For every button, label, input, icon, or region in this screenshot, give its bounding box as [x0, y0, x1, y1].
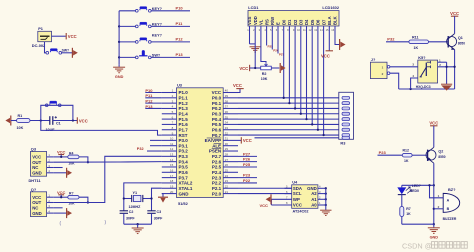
wire P0.6 bus row: [238, 129, 342, 131]
svg-text:38: 38: [225, 99, 229, 103]
svg-text:34: 34: [225, 121, 229, 125]
wire LCD pin 6 net P27: [278, 34, 285, 57]
svg-text:EA/VPP: EA/VPP: [205, 138, 222, 143]
svg-text:P1.7: P1.7: [179, 127, 189, 132]
wire net P23 at U3: [238, 173, 257, 178]
svg-text:A0: A0: [311, 203, 317, 208]
wire C2 to rail: [123, 213, 125, 224]
led LED? LED0: [397, 184, 421, 206]
power VCC (U3 pin 40): [233, 83, 244, 93]
svg-text:13: 13: [170, 153, 174, 157]
svg-text:P2.5: P2.5: [212, 165, 222, 170]
ground GND (U4): [320, 210, 331, 215]
svg-text:P2.4: P2.4: [212, 170, 222, 175]
svg-text:P12: P12: [145, 98, 153, 103]
relay K5? HXQ-DC3: [416, 55, 438, 89]
svg-text:A: A: [447, 199, 450, 203]
svg-text:XTAL2: XTAL2: [179, 181, 193, 186]
svg-text:DC-002: DC-002: [32, 43, 46, 48]
svg-text:31: 31: [225, 137, 229, 141]
svg-text:E: E: [276, 22, 281, 25]
svg-text:P3.0: P3.0: [179, 138, 189, 143]
svg-text:P26: P26: [243, 157, 251, 162]
svg-text:D7: D7: [321, 19, 326, 25]
svg-text:30: 30: [225, 142, 229, 146]
svg-text:27: 27: [225, 158, 229, 162]
svg-text:1K: 1K: [404, 159, 409, 163]
transistor Q2 8550: [426, 147, 446, 163]
wire LCD D6 vertical: [317, 34, 319, 131]
svg-text:RS: RS: [264, 19, 269, 25]
connector P1 DC-002 power jack: [32, 26, 52, 48]
wire P0.7 bus row: [238, 134, 342, 136]
resistor pull-up (Q?): [68, 192, 79, 206]
svg-text:D3: D3: [299, 19, 304, 25]
reset key button S5: [41, 101, 73, 120]
wire RST net to U3 pin 9: [41, 121, 162, 136]
svg-text:P0.5: P0.5: [212, 122, 222, 127]
svg-text:GND: GND: [307, 186, 317, 191]
wire LCD VSS to ground: [250, 34, 256, 44]
wire net P13 at U3 pin 4: [145, 104, 162, 109]
svg-text:P3.6: P3.6: [179, 170, 189, 175]
wire R7 to bottom rail: [401, 217, 403, 225]
svg-text:29: 29: [225, 147, 229, 151]
svg-text:P2.1: P2.1: [212, 186, 222, 191]
wire XTAL2 to left column: [124, 183, 162, 211]
svg-text:C2: C2: [129, 210, 134, 214]
svg-text:P1.1: P1.1: [179, 96, 189, 101]
ground GND (crystal): [132, 224, 144, 233]
svg-text:C3: C3: [157, 210, 162, 214]
svg-text:12: 12: [170, 147, 174, 151]
key button S3 (KEY?): [119, 34, 190, 44]
wire buzzer pin1: [428, 184, 443, 198]
wire U3 P2.0 to U4 SCL: [238, 193, 292, 195]
wire P1 to switch: [45, 42, 47, 53]
svg-text:28: 28: [225, 153, 229, 157]
U4 pin numbers: [286, 185, 321, 206]
wire relay pin4 to bottom loop: [411, 78, 418, 89]
svg-text:BLA: BLA: [327, 16, 332, 25]
switch SW? (power): [46, 48, 69, 54]
connector J? (relay output): [370, 57, 390, 78]
svg-text:GND: GND: [32, 211, 42, 216]
svg-text:36: 36: [225, 110, 229, 114]
svg-text:P1.2: P1.2: [179, 101, 189, 106]
svg-text:P1.6: P1.6: [179, 122, 189, 127]
potentiometer R2 10K: [261, 63, 272, 81]
svg-text:P25: P25: [243, 162, 251, 167]
svg-text:P3.5: P3.5: [179, 165, 189, 170]
wire LCD D7 vertical: [322, 34, 324, 137]
wire GND (Q?): [53, 212, 67, 214]
resistor R11 1K: [409, 36, 429, 50]
svg-text:DHT11: DHT11: [29, 178, 42, 183]
wire LCD D1 vertical: [288, 34, 290, 105]
svg-text:14: 14: [170, 158, 174, 162]
resistor R1 10K: [17, 114, 31, 130]
wire LCD VL to potentiometer wiper: [261, 34, 266, 63]
wire Q2 collector to VCC: [433, 146, 435, 147]
wire LCD D0 vertical: [283, 34, 285, 99]
svg-text:P2.3: P2.3: [212, 175, 222, 180]
svg-text:SDA: SDA: [293, 186, 302, 191]
svg-text:D2: D2: [293, 19, 298, 25]
svg-text:XTAL1: XTAL1: [179, 186, 193, 191]
svg-text:LCD1: LCD1: [248, 5, 259, 10]
power VCC (Q3): [57, 150, 66, 157]
wire GND (Q3): [53, 172, 67, 174]
svg-text:P2.0: P2.0: [212, 191, 222, 196]
wire switch to power arrow: [61, 52, 72, 54]
U3 left pin stubs: [162, 93, 177, 194]
svg-text:P2.2: P2.2: [212, 181, 222, 186]
resistor R7 1K: [400, 207, 411, 217]
svg-text:R/W: R/W: [270, 17, 275, 25]
svg-text:GND: GND: [179, 191, 190, 196]
power VCC (Q?): [57, 190, 66, 197]
svg-text:GND: GND: [115, 75, 124, 79]
wire pull-up to OUT (Q3): [79, 157, 89, 163]
svg-text:R3: R3: [340, 141, 346, 146]
wire net P23 to R12: [378, 150, 403, 155]
svg-text:17: 17: [170, 174, 174, 178]
svg-text:8050: 8050: [458, 41, 465, 45]
svg-text:P2.7: P2.7: [212, 154, 222, 159]
svg-text:19: 19: [170, 184, 174, 188]
power VCC (reset): [77, 117, 87, 123]
wire P1 to VCC: [52, 35, 66, 37]
svg-text:32: 32: [225, 131, 229, 135]
svg-text:20: 20: [170, 190, 174, 194]
wire R12 to Q2 base: [412, 154, 428, 156]
svg-text:VCC: VCC: [233, 83, 242, 88]
wire bottom rail (Q2): [402, 223, 434, 225]
svg-text:10K: 10K: [261, 77, 268, 81]
microcontroller U3 51/52 (AT89C51): [177, 83, 224, 206]
svg-text:P11: P11: [176, 21, 184, 26]
ground (relay, filled triangle): [441, 84, 452, 90]
resistor network R3: [339, 92, 354, 145]
svg-text:J?: J?: [371, 57, 376, 62]
svg-text:P0.0: P0.0: [212, 96, 222, 101]
svg-text:P0.7: P0.7: [212, 133, 222, 138]
svg-text:OUT: OUT: [32, 160, 41, 165]
svg-text:P3.4: P3.4: [179, 159, 189, 164]
svg-text:BLK: BLK: [333, 16, 338, 25]
wire VCC to R2: [250, 67, 261, 69]
wire C1 to VCC: [53, 119, 77, 121]
svg-text:CSDN @: CSDN @: [402, 242, 432, 251]
wire OUT net (Q3): [53, 161, 162, 164]
wire net P32 at U3 pin 12: [137, 147, 162, 151]
svg-text:P32: P32: [387, 37, 395, 42]
svg-text:AT24C02: AT24C02: [293, 210, 309, 214]
svg-text:R11: R11: [412, 36, 419, 40]
svg-text:KEY?: KEY?: [152, 34, 163, 38]
svg-text:GND: GND: [32, 171, 42, 176]
svg-text:NC: NC: [32, 206, 38, 211]
svg-text:P0.6: P0.6: [212, 127, 222, 132]
svg-text:VCC: VCC: [68, 34, 77, 39]
svg-text:R12: R12: [403, 149, 409, 153]
svg-text:LED?: LED?: [412, 184, 421, 188]
wire XTAL1 to right column: [152, 188, 162, 210]
power arrow (right): [72, 48, 77, 58]
wire LCD D4 vertical: [305, 34, 307, 121]
svg-text:P1.5: P1.5: [179, 117, 189, 122]
crystal Y1 12MHZ: [123, 191, 153, 209]
wire R1 to C1: [30, 119, 50, 121]
svg-text:A2: A2: [311, 191, 317, 196]
svg-text:VCC: VCC: [429, 121, 438, 126]
svg-text:VCC: VCC: [212, 90, 222, 95]
wire Q1 emitter down: [454, 50, 456, 89]
svg-text:U4: U4: [292, 180, 298, 185]
svg-text:P10: P10: [145, 88, 153, 93]
svg-text:P3.7: P3.7: [179, 175, 189, 180]
svg-text:P11: P11: [145, 93, 153, 98]
wire net P12 at U3 pin 3: [145, 98, 162, 103]
wire R3 common to VCC row: [255, 137, 342, 139]
wire LCD VDD down to VCC junction: [254, 34, 256, 69]
key button S1 (KEY?): [119, 6, 190, 13]
svg-text:D4: D4: [304, 19, 309, 25]
power VCC (Q1): [450, 11, 459, 32]
svg-text:40: 40: [225, 89, 229, 93]
svg-text:30PF: 30PF: [154, 217, 163, 221]
svg-text:1K: 1K: [406, 212, 411, 216]
svg-text:P3.3: P3.3: [179, 154, 189, 159]
svg-text:SCL: SCL: [293, 191, 302, 196]
svg-text:P23: P23: [243, 173, 251, 178]
svg-text:SW?: SW?: [62, 48, 70, 52]
capacitor C2 30PF: [120, 210, 136, 221]
wire OUT net (Q?): [53, 156, 162, 202]
svg-text:P1: P1: [38, 26, 44, 31]
power VCC (LCD BLA): [321, 34, 333, 59]
capacitor C3 30PF: [147, 210, 163, 221]
power arrow (left, reset): [5, 116, 10, 126]
svg-text:D5: D5: [310, 19, 315, 25]
svg-text:R2: R2: [262, 72, 267, 76]
svg-text:P3.1: P3.1: [179, 143, 189, 148]
wire net P11 at U3 pin 2: [145, 93, 162, 98]
svg-text:26: 26: [225, 163, 229, 167]
svg-text:35: 35: [225, 115, 229, 119]
svg-text:VDD: VDD: [253, 16, 258, 25]
ground GND (LCD VSS): [250, 47, 261, 52]
svg-text:R7: R7: [406, 207, 411, 211]
svg-text:HXQ-DC3: HXQ-DC3: [416, 85, 431, 89]
svg-text:21: 21: [225, 190, 229, 194]
wire LCD D2 vertical: [294, 34, 296, 110]
svg-text:VCC: VCC: [321, 54, 330, 59]
svg-text:P27: P27: [243, 151, 251, 156]
svg-text:8550: 8550: [438, 155, 445, 159]
capacitor C1 10UF electrolytic: [46, 116, 61, 132]
svg-text:10K: 10K: [17, 126, 24, 130]
svg-text:GND: GND: [430, 235, 439, 239]
svg-text:R?: R?: [69, 192, 74, 196]
junction dots on key bus: [118, 25, 120, 58]
ground arrow (LCD BLK): [335, 34, 346, 51]
svg-text:LCD1602: LCD1602: [322, 5, 339, 10]
svg-text:OUT: OUT: [32, 200, 41, 205]
relay pin numbers: [412, 59, 441, 78]
svg-text:B: B: [447, 207, 450, 211]
wire net P10 at U3 pin 1: [145, 88, 162, 93]
power VCC (U3 pin 31 EA/VPP): [238, 137, 252, 143]
wire R2 to ground arrow: [271, 67, 279, 69]
svg-text:11: 11: [170, 142, 173, 146]
resistor R12 1K: [402, 149, 412, 163]
svg-text:22: 22: [225, 184, 229, 188]
svg-text:LED0: LED0: [410, 189, 419, 193]
svg-text:18: 18: [170, 179, 174, 183]
wire net P26 at U3: [238, 157, 257, 162]
svg-text:R1: R1: [18, 114, 23, 118]
wire LCD pin 5 net P26: [272, 34, 279, 53]
wire P0.0 bus row: [238, 97, 342, 99]
wire buzzer pin2: [434, 208, 443, 210]
wire J? pin1 to relay: [390, 66, 418, 68]
svg-text:A1: A1: [311, 197, 317, 202]
wire bottom loop (relay): [399, 88, 455, 90]
wire P0.3 bus row: [238, 113, 342, 115]
wire J? pin2 to bottom loop: [390, 73, 399, 89]
key button S2 (KEY?): [119, 21, 190, 28]
svg-text:NC: NC: [32, 165, 38, 170]
svg-text:1K: 1K: [414, 46, 419, 50]
power VCC (U4): [260, 194, 272, 208]
svg-text:VCC: VCC: [293, 203, 302, 208]
svg-text:P12: P12: [176, 37, 184, 42]
svg-text:P0.2: P0.2: [212, 106, 222, 111]
wire P0.2 bus row: [238, 107, 342, 109]
svg-text:VCC: VCC: [57, 190, 66, 195]
svg-text:VCC: VCC: [32, 195, 41, 200]
svg-text:VCC: VCC: [450, 11, 459, 16]
wire LCD pin 4 net P25: [267, 34, 274, 49]
svg-text:VCC: VCC: [57, 150, 66, 155]
wire P0.1 bus row: [238, 102, 342, 104]
sensor Q? (DHT11) box: [30, 187, 53, 217]
ground arrow (U3 pin 20): [158, 194, 168, 203]
svg-text:10: 10: [170, 137, 174, 141]
svg-text:12MHZ: 12MHZ: [129, 205, 142, 209]
wire key common bus: [118, 11, 120, 64]
svg-text:VCC: VCC: [79, 118, 88, 123]
wire LCD D5 vertical: [311, 34, 313, 126]
svg-text:24: 24: [225, 174, 229, 178]
svg-text:P1.3: P1.3: [179, 106, 189, 111]
wire P0.5 bus row: [238, 123, 342, 125]
U3 left pin numbers: [170, 89, 174, 194]
wire net P27 at U3: [238, 151, 257, 156]
wire bottom rail: [124, 223, 152, 225]
wire U4 WP/VCC to VCC arrow: [271, 188, 291, 205]
svg-text:VL: VL: [259, 19, 264, 25]
wire net P25 at U3: [238, 162, 257, 167]
svg-text:39: 39: [225, 94, 229, 98]
svg-text:37: 37: [225, 105, 229, 109]
svg-text:VCC: VCC: [239, 66, 248, 71]
svg-text:P10: P10: [176, 6, 184, 11]
svg-text:Q?: Q?: [31, 187, 37, 192]
svg-text:Q3: Q3: [31, 147, 37, 152]
eeprom U4 AT24C02: [292, 180, 318, 214]
svg-text:P23: P23: [379, 150, 387, 155]
svg-text:P32: P32: [137, 147, 144, 151]
svg-text:BUZZER: BUZZER: [443, 217, 457, 221]
wire R11 to Q1 base: [429, 41, 449, 43]
svg-text:P1.0: P1.0: [179, 90, 189, 95]
svg-text:PSEN: PSEN: [209, 149, 221, 154]
svg-text:P0.3: P0.3: [212, 111, 222, 116]
svg-text:BZ?: BZ?: [448, 187, 456, 192]
wire P0.4 bus row: [238, 118, 342, 120]
svg-text:P2.6: P2.6: [212, 159, 222, 164]
svg-text:25: 25: [225, 169, 229, 173]
svg-text:VSS: VSS: [247, 16, 252, 25]
svg-text:D6: D6: [316, 19, 321, 25]
LCD1 pin numbers: [247, 28, 335, 32]
svg-text:K5?: K5?: [418, 55, 426, 60]
svg-text:R4: R4: [69, 151, 73, 155]
svg-text:33: 33: [225, 126, 229, 130]
wire C3 to rail: [151, 213, 153, 224]
wire U3 P2.1 to U4 SDA: [238, 187, 292, 189]
ground arrow (R2): [280, 63, 285, 73]
watermark CSDN: [402, 242, 467, 251]
svg-text:VCC: VCC: [260, 203, 269, 208]
svg-text:VCC: VCC: [32, 155, 41, 160]
wire net P32 to R11: [386, 37, 409, 42]
power VCC (contrast pot): [239, 65, 249, 71]
svg-text:16: 16: [170, 169, 174, 173]
wire NC (Q3): [53, 167, 62, 169]
svg-text:30PF: 30PF: [126, 217, 135, 221]
wire Q1 collector to VCC: [454, 32, 456, 34]
svg-text:51/52: 51/52: [178, 201, 189, 206]
wire relay contacts: [438, 62, 456, 84]
power VCC (Q2): [429, 121, 438, 146]
LCD1 pin stubs: [250, 26, 336, 34]
svg-text:15: 15: [170, 163, 174, 167]
svg-text:D1: D1: [287, 19, 292, 25]
svg-text:P22: P22: [243, 178, 251, 183]
ground GND (Q2 block): [428, 224, 440, 239]
power VCC (jack): [66, 33, 76, 39]
wire pull-up to OUT (Q?): [79, 197, 89, 203]
wire LCD D3 vertical: [300, 34, 302, 115]
svg-text:D0: D0: [281, 19, 286, 25]
svg-text:P3.2: P3.2: [179, 149, 189, 154]
wire U3 P3.1: [150, 145, 162, 147]
svg-text:RST: RST: [179, 133, 188, 138]
ground GND (keys): [113, 64, 125, 79]
wire emitter node to LED: [402, 184, 434, 186]
svg-text:P13: P13: [145, 104, 153, 109]
connector LCD1 LCD1602 header: [247, 5, 340, 26]
svg-text:Y1: Y1: [133, 191, 138, 195]
key button S4 (SW?): [119, 50, 190, 58]
svg-text:VCC: VCC: [243, 138, 252, 143]
svg-text:ALE: ALE: [212, 143, 221, 148]
ground arrow (Q?): [67, 208, 72, 218]
